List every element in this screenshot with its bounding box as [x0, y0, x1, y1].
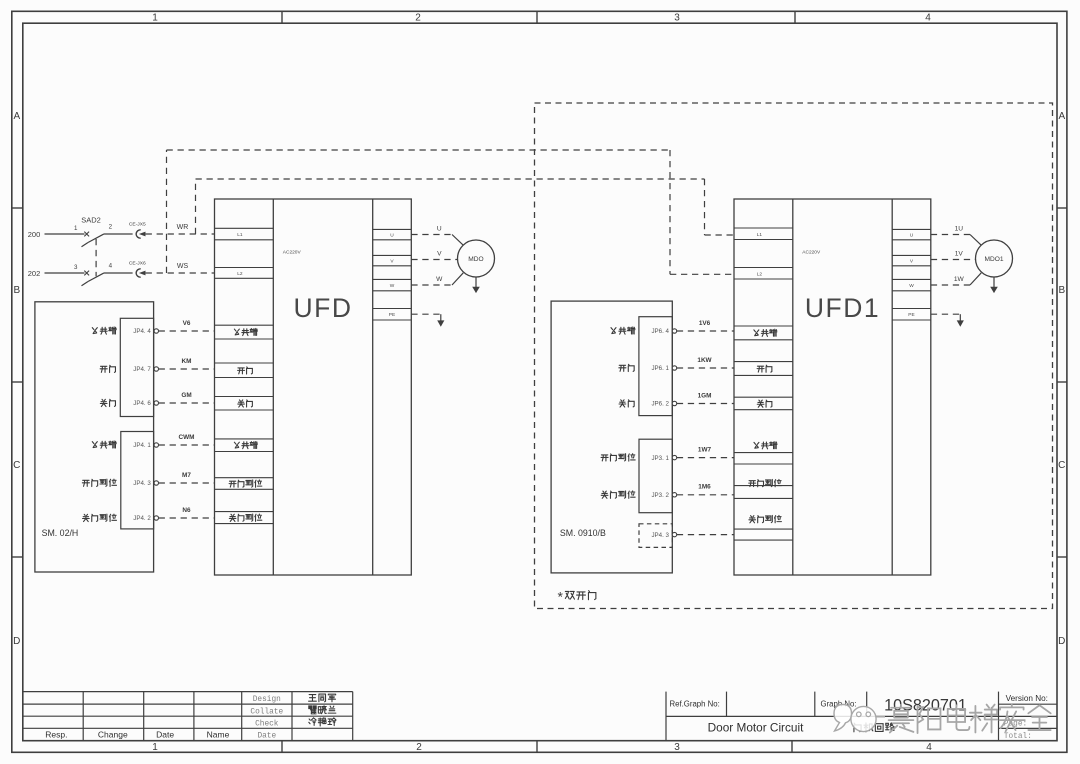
- svg-text:2: 2: [109, 224, 113, 231]
- svg-text:CE-JX6: CE-JX6: [129, 260, 146, 266]
- svg-text:D: D: [13, 636, 20, 647]
- svg-text:A: A: [13, 111, 20, 122]
- svg-text:Total:: Total:: [1004, 733, 1032, 741]
- svg-text:JP4. 4: JP4. 4: [133, 328, 151, 335]
- svg-text:L1: L1: [237, 232, 243, 238]
- svg-text:WS: WS: [177, 263, 189, 270]
- svg-text:MDO1: MDO1: [984, 256, 1003, 263]
- svg-text:1V6: 1V6: [699, 320, 711, 327]
- svg-text:JP4. 2: JP4. 2: [133, 515, 151, 522]
- svg-text:CWM: CWM: [179, 434, 195, 441]
- svg-text:Date: Date: [257, 733, 276, 741]
- svg-text:UFD1: UFD1: [805, 293, 880, 323]
- svg-text:C: C: [13, 460, 20, 471]
- svg-text:Resp.: Resp.: [45, 730, 67, 740]
- svg-text:PE: PE: [389, 312, 395, 318]
- svg-text:AC220V: AC220V: [802, 250, 821, 256]
- svg-text:MDO: MDO: [468, 256, 483, 263]
- svg-text:UFD: UFD: [294, 293, 353, 323]
- svg-text:1: 1: [152, 13, 158, 24]
- svg-text:JP6. 4: JP6. 4: [651, 328, 669, 335]
- svg-text:Change: Change: [98, 730, 128, 740]
- svg-text:U: U: [390, 233, 394, 239]
- svg-text:JP4. 1: JP4. 1: [133, 442, 151, 449]
- svg-text:C: C: [1058, 460, 1065, 471]
- svg-text:L2: L2: [237, 271, 243, 277]
- svg-text:D: D: [1058, 636, 1065, 647]
- svg-text:CE-JX5: CE-JX5: [129, 221, 146, 227]
- svg-text:Collate: Collate: [250, 708, 283, 716]
- svg-text:3: 3: [674, 742, 680, 753]
- svg-text:Name: Name: [207, 730, 230, 740]
- svg-text:JP4. 3: JP4. 3: [133, 480, 151, 487]
- svg-text:V: V: [437, 251, 442, 258]
- svg-text:N6: N6: [182, 507, 191, 514]
- svg-text:SM. 02/H: SM. 02/H: [42, 528, 79, 538]
- svg-text:B: B: [13, 285, 20, 296]
- svg-text:4: 4: [926, 742, 932, 753]
- svg-text:Design: Design: [253, 696, 281, 704]
- svg-text:W: W: [390, 283, 395, 289]
- svg-text:JP4. 7: JP4. 7: [133, 366, 151, 373]
- svg-text:U: U: [910, 233, 914, 239]
- svg-text:3: 3: [674, 13, 680, 24]
- svg-text:2: 2: [415, 13, 421, 24]
- svg-text:W: W: [909, 283, 914, 289]
- svg-text:4: 4: [109, 263, 113, 270]
- svg-text:L1: L1: [757, 232, 763, 238]
- svg-text:Ref.Graph No:: Ref.Graph No:: [670, 700, 720, 709]
- svg-text:1W: 1W: [954, 276, 965, 283]
- svg-text:3: 3: [74, 264, 78, 271]
- svg-text:W: W: [436, 276, 443, 283]
- svg-text:L2: L2: [757, 271, 763, 277]
- svg-text:U: U: [437, 225, 442, 232]
- svg-text:1KW: 1KW: [697, 357, 712, 364]
- svg-text:M7: M7: [182, 472, 191, 479]
- svg-text:WR: WR: [177, 224, 189, 231]
- svg-text:KM: KM: [182, 358, 192, 365]
- svg-text:1U: 1U: [955, 225, 964, 232]
- svg-text:AC220V: AC220V: [283, 250, 302, 256]
- svg-text:1: 1: [152, 742, 158, 753]
- svg-text:10S820701: 10S820701: [884, 697, 967, 715]
- svg-text:B: B: [1058, 285, 1065, 296]
- svg-text:1W7: 1W7: [698, 446, 712, 453]
- svg-text:JP6. 2: JP6. 2: [651, 401, 669, 408]
- svg-text:JP3. 1: JP3. 1: [651, 455, 669, 462]
- svg-text:1M6: 1M6: [698, 484, 711, 491]
- svg-text:JP6. 1: JP6. 1: [651, 365, 669, 372]
- svg-text:GM: GM: [181, 392, 191, 399]
- svg-text:JP4. 3: JP4. 3: [651, 532, 669, 539]
- svg-text:JP3. 2: JP3. 2: [651, 492, 669, 499]
- svg-text:1V: 1V: [955, 251, 964, 258]
- svg-text:Version No:: Version No:: [1006, 694, 1048, 703]
- svg-text:200: 200: [28, 230, 41, 239]
- svg-text:V6: V6: [183, 320, 191, 327]
- svg-text:Check: Check: [255, 720, 279, 728]
- svg-text:PE: PE: [908, 312, 914, 318]
- svg-text:Date: Date: [156, 730, 174, 740]
- svg-text:1GM: 1GM: [698, 392, 712, 399]
- svg-text:JP4. 6: JP4. 6: [133, 400, 151, 407]
- svg-text:*: *: [558, 589, 564, 605]
- svg-text:2: 2: [416, 742, 422, 753]
- svg-text:SM. 0910/B: SM. 0910/B: [560, 528, 606, 538]
- svg-text:Door Motor Circuit: Door Motor Circuit: [708, 721, 804, 735]
- svg-text:1: 1: [74, 225, 78, 232]
- svg-text:A: A: [1058, 111, 1065, 122]
- svg-text:4: 4: [925, 13, 931, 24]
- svg-text:SAD2: SAD2: [81, 215, 101, 224]
- svg-text:202: 202: [28, 269, 41, 278]
